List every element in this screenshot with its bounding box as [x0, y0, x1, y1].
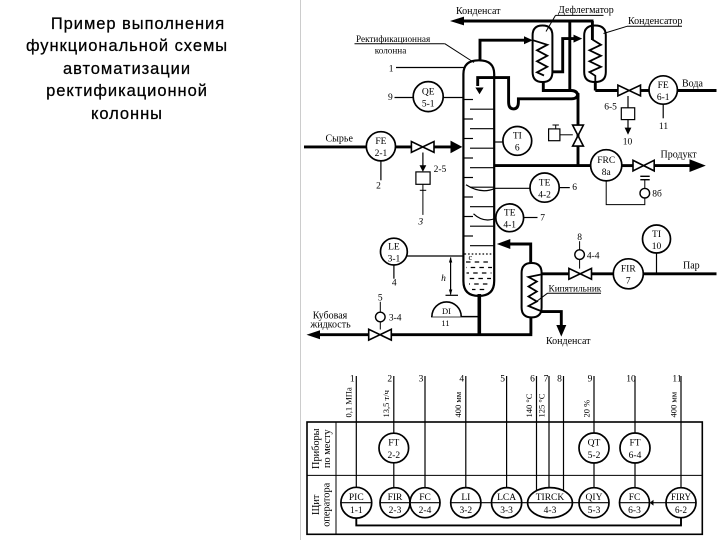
reboiler vessel	[522, 263, 542, 317]
valve feed control 2-5	[411, 142, 434, 153]
svg-text:QT: QT	[588, 439, 601, 449]
TE 4-2 thermowell leader	[466, 185, 530, 191]
svg-text:FT: FT	[388, 439, 399, 449]
instrument FIR 7	[613, 259, 643, 289]
svg-text:FIR: FIR	[621, 265, 636, 275]
svg-text:Вода: Вода	[682, 79, 703, 90]
svg-text:8: 8	[577, 233, 582, 243]
instrument TE 4-2	[530, 173, 559, 202]
title text	[12, 13, 242, 125]
svg-text:10: 10	[652, 242, 662, 252]
svg-text:400 мм: 400 мм	[453, 391, 463, 417]
svg-text:6-2: 6-2	[675, 505, 687, 515]
svg-text:FC: FC	[419, 493, 431, 503]
TE 4-1 thermowell leader	[474, 214, 497, 220]
table row headers	[311, 428, 333, 526]
instrument LE 3-1	[381, 238, 408, 265]
wire PIC to FIRY loop	[356, 518, 681, 526]
wire condensate header	[463, 20, 594, 23]
instrument TI 6	[503, 126, 532, 155]
instrument FC 6-3	[620, 488, 650, 518]
svg-text:2: 2	[387, 375, 392, 385]
svg-text:5: 5	[378, 293, 383, 303]
svg-text:6: 6	[515, 144, 520, 154]
wire TI6 to column	[495, 141, 503, 143]
wire dephlegmator-condenser link	[552, 39, 573, 72]
svg-text:FRC: FRC	[597, 156, 615, 166]
wire feed line	[304, 145, 367, 148]
DI baseline	[431, 316, 478, 318]
wire condenser top drop	[591, 21, 594, 40]
svg-text:6-1: 6-1	[657, 93, 670, 103]
svg-text:13,5 т/ч: 13,5 т/ч	[381, 389, 391, 417]
svg-text:3: 3	[419, 375, 424, 385]
arrow reflux into column	[475, 88, 483, 95]
svg-text:8а: 8а	[602, 168, 612, 178]
wire node 1 to column	[396, 67, 466, 69]
wire node 7 stub	[524, 217, 538, 219]
instrument PIC 1-1	[341, 487, 372, 518]
instrument LCA 3-3	[492, 488, 522, 518]
svg-text:PIC: PIC	[349, 493, 364, 503]
wire signal 7	[548, 376, 550, 488]
instrument FIRY 6-2	[666, 488, 696, 518]
wire node 4 stub	[393, 265, 395, 279]
DI level gauge dome	[432, 302, 461, 317]
svg-text:8б: 8б	[652, 189, 662, 200]
svg-text:4-3: 4-3	[544, 506, 557, 516]
valve reflux-product control	[573, 125, 584, 146]
instrument QE 5-1	[413, 82, 443, 112]
dephlegmator vessel	[533, 26, 553, 83]
h dimension arrowheads	[449, 257, 452, 263]
wire condensate downcomer to product	[577, 94, 580, 166]
wire node 9 to QE	[395, 97, 414, 99]
arrow dephlegmator to condenser	[574, 35, 583, 43]
positioner 4-4 circle	[579, 241, 581, 250]
svg-text:2-3: 2-3	[389, 506, 402, 516]
svg-text:FE: FE	[658, 81, 669, 91]
svg-text:6-4: 6-4	[629, 451, 642, 461]
svg-text:6: 6	[572, 183, 577, 193]
arrow condensate left	[450, 17, 464, 26]
arrow bottoms left	[307, 330, 321, 339]
wire QE to column	[443, 97, 463, 99]
wire signal 10	[634, 376, 636, 433]
svg-text:FIRY: FIRY	[671, 492, 692, 502]
reboiler coil	[529, 275, 542, 312]
wire signal 5	[506, 376, 508, 488]
wire column vapor riser	[480, 40, 524, 60]
bubble midlines	[341, 502, 372, 504]
valve steam 4-4	[569, 268, 592, 279]
wire signal 3	[424, 376, 426, 488]
svg-text:Конденсатор: Конденсатор	[628, 16, 682, 27]
svg-text:4-2: 4-2	[538, 190, 551, 200]
instrument FRC 8a	[591, 150, 622, 181]
svg-text:4-4: 4-4	[587, 251, 600, 261]
wire signal 4	[465, 376, 467, 488]
svg-text:3: 3	[417, 218, 423, 228]
wire column bottom outlet	[477, 294, 481, 335]
svg-text:3-3: 3-3	[500, 506, 513, 516]
wire header-to-bottom drop	[568, 21, 571, 92]
arrow below 6-5 square	[625, 128, 632, 135]
slide guide line	[300, 0, 302, 540]
svg-text:5-2: 5-2	[588, 451, 601, 461]
svg-text:1: 1	[389, 64, 394, 74]
svg-text:TI: TI	[513, 132, 522, 142]
svg-text:Приборы: Приборы	[311, 428, 322, 469]
svg-text:140 °С: 140 °С	[524, 393, 534, 417]
svg-text:TIRCK: TIRCK	[536, 493, 565, 503]
svg-text:6-5: 6-5	[604, 103, 617, 113]
svg-text:4: 4	[392, 279, 397, 289]
instrument QIY 5-3	[579, 488, 609, 518]
svg-text:Пар: Пар	[683, 261, 700, 272]
instrument FE 2-1	[366, 132, 395, 161]
positioner 8b circle	[640, 175, 649, 177]
wire reboiler bottom feed	[529, 317, 532, 334]
column trays	[464, 99, 473, 101]
wire signal 1	[355, 376, 357, 488]
wire LE to column	[407, 255, 463, 257]
instrument QT 5-2	[579, 433, 609, 463]
svg-text:2-5: 2-5	[434, 165, 447, 175]
instrument FE 6-1	[649, 76, 677, 104]
actuator 6-5 square	[627, 96, 629, 108]
svg-text:2-2: 2-2	[387, 451, 400, 461]
label Kondensator	[604, 16, 683, 34]
svg-text:LCA: LCA	[497, 493, 516, 503]
svg-text:5-1: 5-1	[422, 99, 435, 109]
arrow into 2-5 square	[420, 165, 427, 172]
wire cooling water line	[595, 89, 618, 92]
label Kipyatilnik	[535, 285, 602, 304]
instrument FIR 2-3	[380, 488, 410, 518]
wire signal 11	[680, 376, 682, 488]
svg-text:3-1: 3-1	[388, 254, 401, 264]
svg-text:7: 7	[540, 213, 545, 223]
svg-text:10: 10	[626, 375, 636, 385]
svg-text:Конденсат: Конденсат	[456, 6, 501, 17]
svg-text:DI: DI	[442, 306, 451, 316]
instrument TE 4-1	[496, 204, 524, 232]
svg-text:9: 9	[388, 93, 393, 103]
svg-text:4-1: 4-1	[503, 221, 516, 231]
label Deflegmator	[546, 5, 614, 32]
svg-text:оператора: оператора	[322, 482, 333, 526]
svg-text:Щит: Щит	[311, 494, 322, 515]
svg-text:LI: LI	[461, 493, 470, 503]
svg-text:LE: LE	[388, 242, 400, 252]
svg-text:жидкость: жидкость	[309, 320, 351, 331]
svg-text:11: 11	[441, 318, 449, 328]
instrument FT 2-2	[379, 433, 409, 463]
svg-text:3-2: 3-2	[459, 506, 472, 516]
valve bottoms 3-4	[369, 329, 392, 340]
wire reboiler vapor return	[510, 244, 531, 264]
svg-text:QE: QE	[422, 87, 435, 97]
svg-text:колонна: колонна	[375, 46, 407, 56]
svg-text:6: 6	[530, 375, 535, 385]
svg-text:400 мм: 400 мм	[668, 391, 678, 417]
svg-text:1-1: 1-1	[350, 506, 363, 516]
FRC loop wire	[606, 181, 645, 205]
svg-text:6-3: 6-3	[628, 506, 641, 516]
liquid level dotted	[465, 253, 494, 255]
wire TI10 to steam line	[656, 253, 658, 274]
svg-text:FE: FE	[375, 137, 386, 147]
instrument TIRCK 4-3	[528, 488, 573, 518]
svg-text:Дефлегматор: Дефлегматор	[558, 5, 614, 16]
instrument TI 10	[643, 225, 671, 253]
wire FIRY to FC arrow	[653, 502, 666, 504]
svg-text:Продукт: Продукт	[661, 150, 698, 161]
wire product line	[495, 164, 591, 167]
condenser coil	[590, 40, 602, 82]
svg-text:20 %: 20 %	[581, 400, 591, 418]
wire steam line	[541, 272, 569, 275]
svg-text:c: c	[469, 252, 473, 262]
wire bottoms line	[320, 333, 370, 336]
svg-text:125 °С: 125 °С	[536, 393, 546, 417]
svg-text:10: 10	[623, 138, 633, 148]
wire node 2 stub	[380, 161, 382, 180]
column vessel	[463, 60, 494, 296]
svg-text:0,1 МПа: 0,1 МПа	[344, 387, 354, 417]
arrow feed into column	[451, 141, 463, 154]
svg-text:8: 8	[557, 375, 562, 385]
h dimension line	[450, 258, 452, 295]
svg-text:5-3: 5-3	[588, 506, 601, 516]
wire signal 8	[563, 376, 565, 491]
svg-text:2: 2	[376, 181, 381, 191]
wire node 6 stub	[559, 187, 570, 189]
svg-text:QIY: QIY	[586, 493, 603, 503]
condenser vessel	[584, 26, 606, 83]
actuator square of control valve	[549, 129, 560, 141]
wire reflux U-seal	[478, 78, 578, 109]
svg-text:Конденсат: Конденсат	[546, 336, 591, 347]
svg-text:11: 11	[672, 375, 681, 385]
wire signal 2	[393, 376, 395, 433]
wire condenser bottom out	[594, 82, 597, 91]
arrow vapor into dephlegmator	[524, 36, 533, 44]
instrument FC 2-4	[410, 488, 440, 518]
svg-text:2-4: 2-4	[419, 506, 432, 516]
arrow reboiler condensate down	[556, 325, 566, 337]
svg-text:TE: TE	[539, 178, 551, 188]
wire reboiler condensate out	[541, 312, 561, 326]
valve cooling water 6-5	[618, 85, 641, 96]
svg-text:FIR: FIR	[388, 493, 403, 503]
svg-text:4: 4	[459, 375, 464, 385]
instrument FT 6-4	[620, 433, 650, 463]
svg-text:FT: FT	[629, 439, 640, 449]
svg-text:7: 7	[626, 277, 631, 287]
svg-text:Ректификационная: Ректификационная	[356, 34, 431, 44]
svg-text:TI: TI	[652, 230, 661, 240]
svg-text:TE: TE	[504, 209, 516, 219]
svg-text:9: 9	[588, 375, 593, 385]
svg-text:h: h	[441, 274, 446, 284]
liquid dashes	[466, 261, 492, 263]
svg-text:7: 7	[544, 375, 549, 385]
dephlegmator coil	[533, 40, 547, 75]
wire FE 6-1 node 11 stub	[662, 104, 664, 118]
svg-text:Сырье: Сырье	[326, 134, 354, 145]
svg-text:3-4: 3-4	[389, 313, 402, 323]
arrow product right	[690, 159, 706, 172]
wire signal 6	[536, 376, 538, 491]
svg-text:11: 11	[659, 122, 668, 132]
actuator 2-5 square	[422, 153, 424, 166]
wire dephlegmator bottom out	[543, 82, 571, 91]
svg-text:5: 5	[500, 375, 505, 385]
table frame	[307, 422, 702, 534]
positioner 3-4 circle	[379, 302, 381, 312]
valve product 8b	[633, 160, 654, 171]
svg-text:FC: FC	[629, 493, 641, 503]
instrument LI 3-2	[451, 488, 481, 518]
arrow reboiler vapor into column	[497, 239, 511, 249]
svg-text:1: 1	[350, 375, 355, 385]
svg-text:по месту: по месту	[322, 429, 333, 469]
label Rektifikatsionnaya kolonna	[355, 34, 475, 63]
svg-text:2-1: 2-1	[375, 149, 388, 159]
wire signal 9	[593, 376, 595, 433]
